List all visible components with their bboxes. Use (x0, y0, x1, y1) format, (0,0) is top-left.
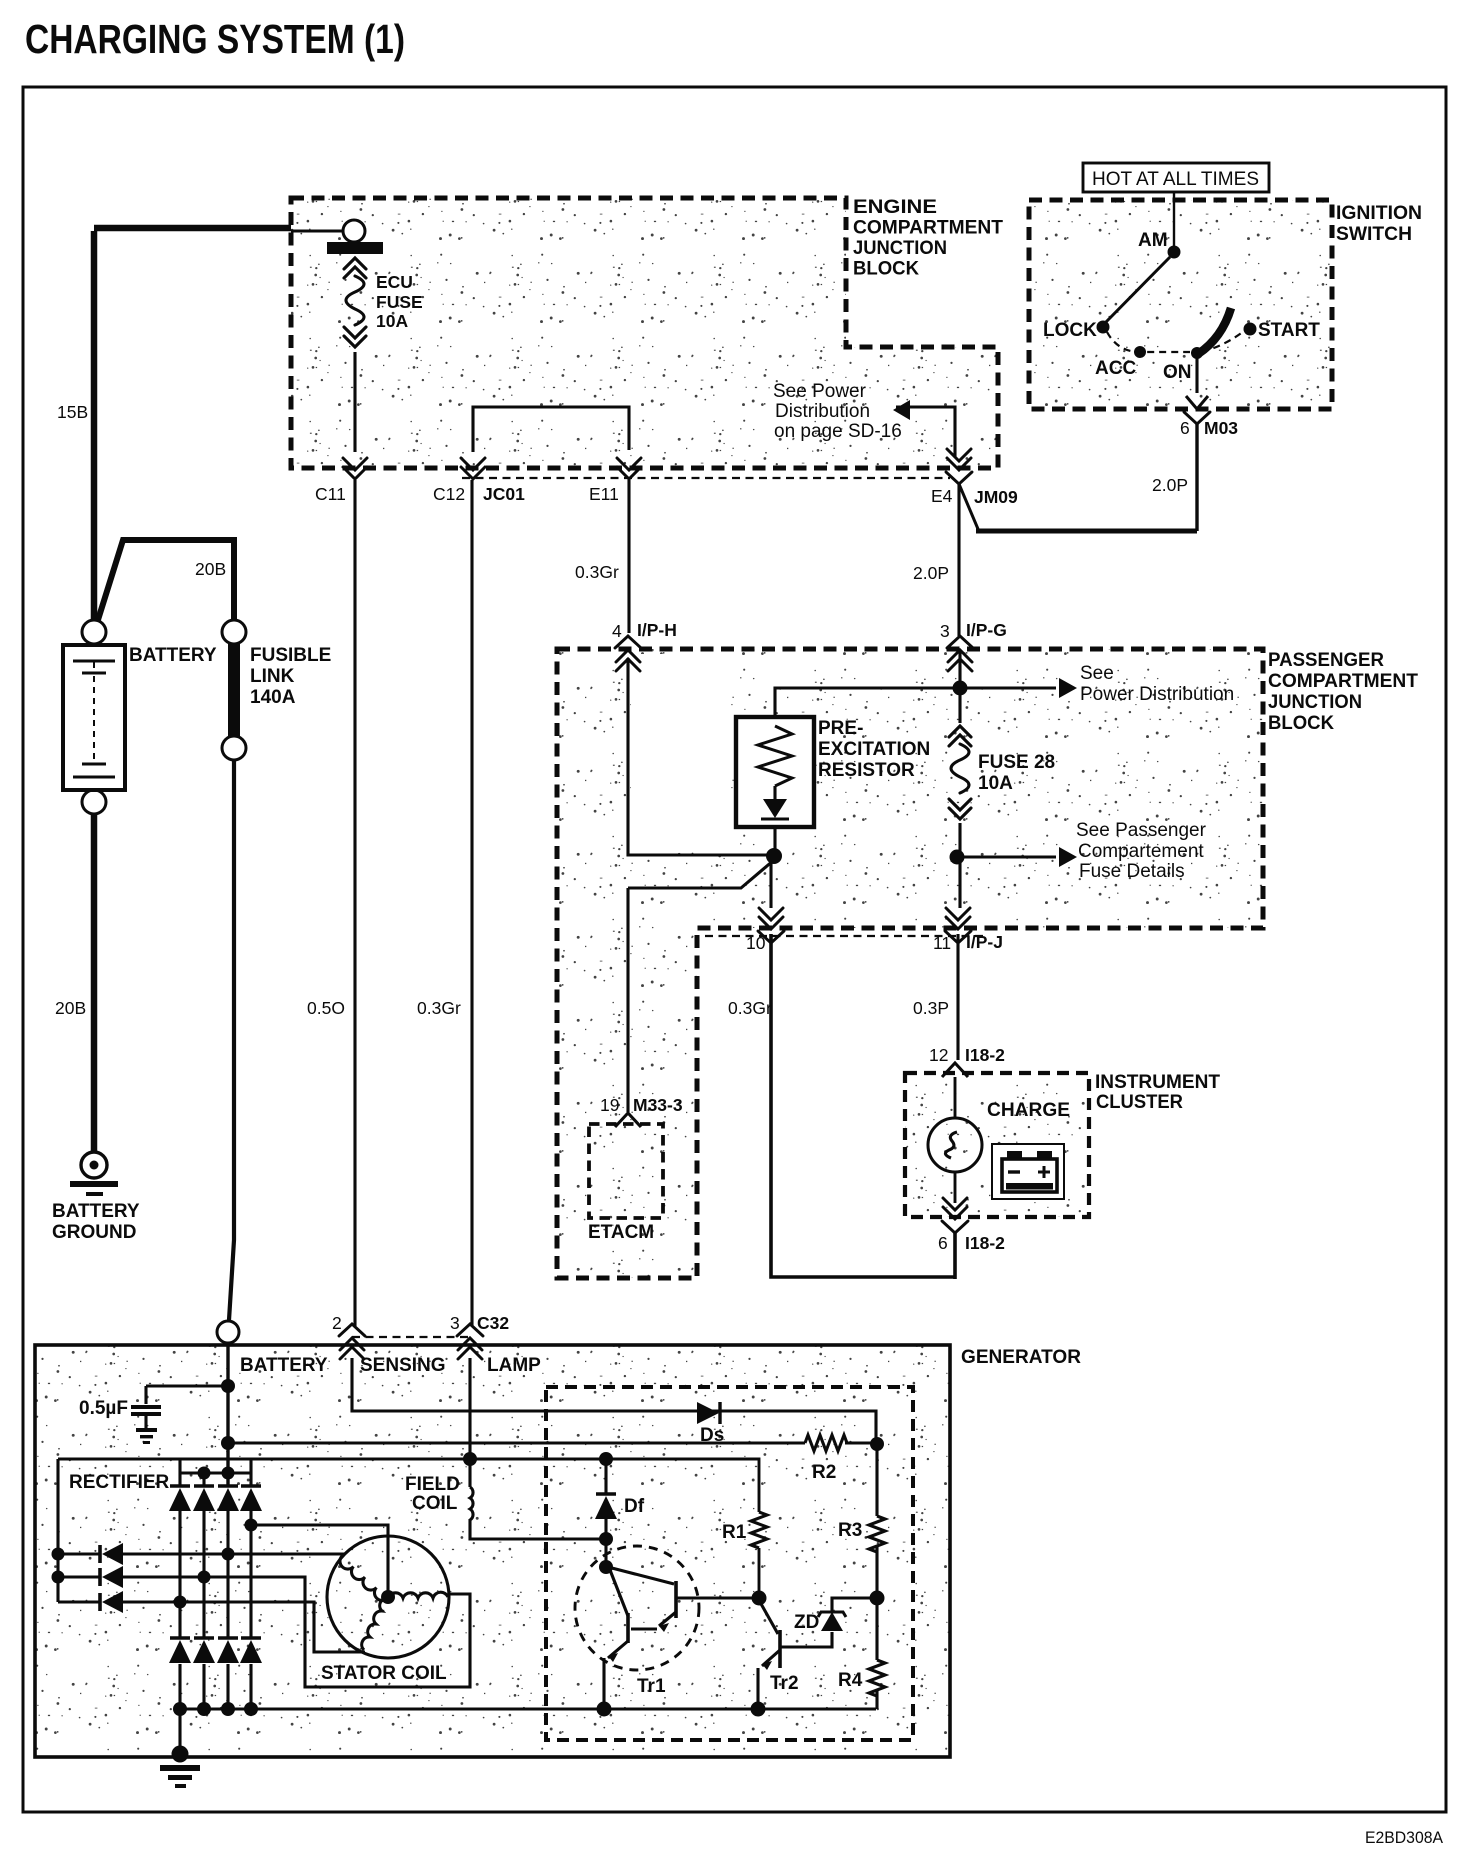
svg-text:STATOR COIL: STATOR COIL (321, 1663, 447, 1684)
svg-text:3: 3 (940, 621, 950, 641)
svg-text:ON: ON (1163, 362, 1192, 383)
svg-text:0.3Gr: 0.3Gr (575, 562, 619, 582)
svg-text:Ds: Ds (700, 1425, 724, 1446)
svg-text:C12: C12 (433, 484, 465, 504)
svg-text:HOT AT ALL TIMES: HOT AT ALL TIMES (1092, 169, 1259, 190)
svg-text:RESISTOR: RESISTOR (818, 760, 915, 781)
svg-text:FIELD: FIELD (405, 1474, 460, 1495)
svg-text:0.3Gr: 0.3Gr (728, 998, 772, 1018)
svg-text:BLOCK: BLOCK (853, 259, 919, 280)
svg-text:GROUND: GROUND (52, 1222, 136, 1243)
svg-text:See: See (1080, 663, 1114, 684)
svg-text:I/P-J: I/P-J (966, 932, 1003, 952)
svg-text:6: 6 (938, 1233, 948, 1253)
svg-text:PRE-: PRE- (818, 718, 863, 739)
svg-text:10A: 10A (978, 773, 1013, 794)
svg-text:COIL: COIL (412, 1493, 458, 1514)
svg-text:BLOCK: BLOCK (1268, 713, 1334, 734)
svg-text:LINK: LINK (250, 666, 295, 687)
svg-text:Tr1: Tr1 (637, 1676, 666, 1697)
svg-text:COMPARTMENT: COMPARTMENT (1268, 671, 1418, 692)
svg-text:Power Distribution: Power Distribution (1080, 684, 1234, 705)
svg-text:START: START (1258, 320, 1320, 341)
svg-text:140A: 140A (250, 687, 296, 708)
svg-text:19: 19 (600, 1095, 619, 1115)
svg-text:10A: 10A (376, 311, 408, 331)
svg-text:2.0P: 2.0P (1152, 475, 1188, 495)
svg-text:2.0P: 2.0P (913, 563, 949, 583)
svg-text:C11: C11 (315, 484, 346, 504)
svg-text:Distribution: Distribution (775, 401, 870, 422)
svg-text:M33-3: M33-3 (633, 1095, 683, 1115)
svg-text:M03: M03 (1204, 418, 1238, 438)
svg-text:RECTIFIER: RECTIFIER (69, 1472, 170, 1493)
svg-text:20B: 20B (55, 998, 86, 1018)
svg-text:R1: R1 (722, 1522, 747, 1543)
svg-text:R3: R3 (838, 1520, 862, 1541)
svg-text:CLUSTER: CLUSTER (1096, 1092, 1183, 1113)
svg-text:SENSING: SENSING (360, 1355, 446, 1376)
svg-text:PASSENGER: PASSENGER (1268, 650, 1384, 671)
svg-text:JUNCTION: JUNCTION (1268, 692, 1362, 713)
svg-text:E2BD308A: E2BD308A (1365, 1828, 1444, 1847)
svg-text:ACC: ACC (1095, 358, 1136, 379)
svg-text:CHARGING SYSTEM (1): CHARGING SYSTEM (1) (25, 16, 405, 62)
svg-text:AM: AM (1138, 230, 1168, 251)
svg-text:20B: 20B (195, 559, 226, 579)
svg-text:CHARGE: CHARGE (987, 1100, 1070, 1121)
svg-text:JUNCTION: JUNCTION (853, 238, 947, 259)
svg-text:3: 3 (450, 1313, 460, 1333)
svg-text:GENERATOR: GENERATOR (961, 1347, 1081, 1368)
svg-text:0.5O: 0.5O (307, 998, 345, 1018)
svg-text:FUSIBLE: FUSIBLE (250, 645, 331, 666)
svg-text:INSTRUMENT: INSTRUMENT (1095, 1072, 1220, 1093)
svg-text:ZD: ZD (794, 1612, 819, 1633)
svg-text:COMPARTMENT: COMPARTMENT (853, 218, 1003, 239)
svg-text:JC01: JC01 (483, 484, 525, 504)
svg-text:Df: Df (624, 1496, 645, 1517)
svg-text:ETACM: ETACM (588, 1222, 654, 1243)
svg-text:4: 4 (612, 621, 622, 641)
svg-text:R4: R4 (838, 1670, 863, 1691)
svg-text:0.3P: 0.3P (913, 998, 949, 1018)
svg-text:10: 10 (746, 933, 766, 953)
svg-text:BATTERY: BATTERY (52, 1201, 140, 1222)
svg-text:C32: C32 (477, 1313, 509, 1333)
svg-text:LOCK: LOCK (1043, 320, 1097, 341)
svg-text:E11: E11 (589, 484, 619, 504)
svg-text:I18-2: I18-2 (965, 1233, 1005, 1253)
svg-text:Compartement: Compartement (1078, 841, 1204, 862)
svg-text:SWITCH: SWITCH (1336, 224, 1412, 245)
svg-text:0.3Gr: 0.3Gr (417, 998, 461, 1018)
svg-text:BATTERY: BATTERY (129, 645, 217, 666)
svg-text:0.5µF: 0.5µF (79, 1398, 128, 1419)
svg-text:BATTERY: BATTERY (240, 1355, 328, 1376)
svg-text:ENGINE: ENGINE (853, 197, 937, 218)
svg-text:LAMP: LAMP (487, 1355, 541, 1376)
svg-text:Tr2: Tr2 (770, 1673, 799, 1694)
svg-text:I/P-G: I/P-G (966, 620, 1007, 640)
svg-text:Fuse Details: Fuse Details (1079, 861, 1185, 882)
svg-text:2: 2 (332, 1313, 342, 1333)
svg-text:EXCITATION: EXCITATION (818, 739, 930, 760)
svg-text:11: 11 (933, 933, 951, 953)
svg-text:12: 12 (929, 1045, 948, 1065)
svg-text:15B: 15B (57, 402, 88, 422)
svg-text:See Passenger: See Passenger (1076, 820, 1207, 841)
svg-text:IGNITION: IGNITION (1336, 203, 1422, 224)
svg-text:JM09: JM09 (974, 487, 1018, 507)
svg-text:FUSE: FUSE (376, 292, 423, 312)
svg-text:See Power: See Power (773, 381, 867, 402)
svg-text:I18-2: I18-2 (965, 1045, 1005, 1065)
svg-text:6: 6 (1180, 418, 1190, 438)
svg-text:I/P-H: I/P-H (637, 620, 677, 640)
svg-text:FUSE 28: FUSE 28 (978, 752, 1055, 773)
svg-text:E4: E4 (931, 486, 953, 506)
svg-text:on page SD-16: on page SD-16 (774, 421, 902, 442)
svg-text:ECU: ECU (376, 272, 413, 292)
svg-text:R2: R2 (812, 1462, 836, 1483)
